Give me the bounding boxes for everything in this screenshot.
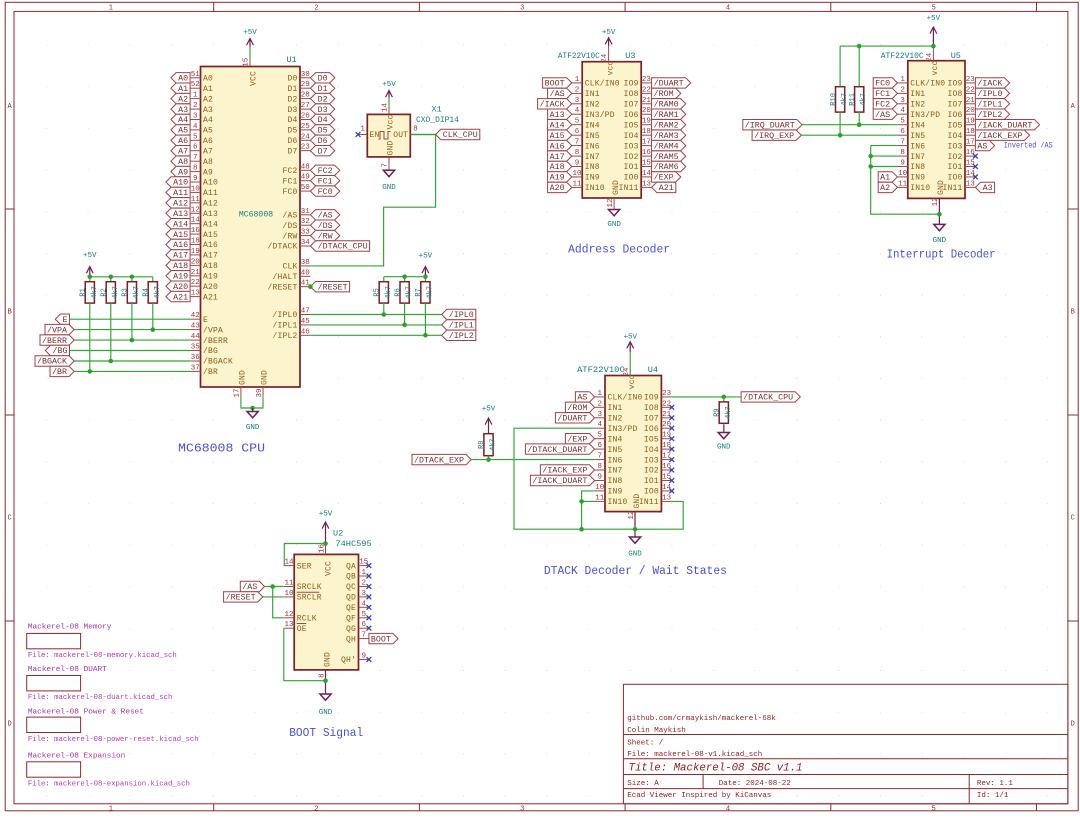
svg-text:X1: X1 (432, 105, 442, 115)
wire IN6 (871, 145, 898, 147)
no-connect IO2 (669, 468, 674, 473)
resistor R10 4k7 (830, 87, 849, 112)
svg-text:IN4: IN4 (585, 121, 600, 130)
svg-text:IO6: IO6 (947, 111, 962, 120)
net label D0 (310, 73, 334, 84)
net label /DS (310, 220, 339, 231)
svg-text:/BG: /BG (53, 347, 68, 356)
pin 24 VCC (601, 46, 609, 63)
net label CLK_CPU (436, 129, 480, 140)
svg-text:/DTACK_CPU: /DTACK_CPU (318, 243, 368, 252)
svg-text:1: 1 (575, 76, 580, 84)
svg-text:IN10: IN10 (910, 184, 930, 193)
svg-text:D2: D2 (287, 95, 297, 104)
svg-text:2: 2 (900, 86, 905, 94)
net label D7 (310, 146, 334, 157)
svg-text:11: 11 (898, 180, 908, 188)
svg-text:IN5: IN5 (585, 132, 600, 141)
ground (718, 424, 729, 439)
svg-text:45: 45 (301, 318, 311, 326)
svg-text:vcc: vcc (931, 60, 940, 75)
net label /IACK_EXP (540, 465, 594, 476)
svg-text:23: 23 (642, 76, 652, 84)
svg-text:D: D (7, 721, 11, 729)
svg-text:GND: GND (261, 370, 270, 385)
wire R6 bottom (404, 303, 406, 325)
svg-text:21: 21 (662, 411, 672, 419)
svg-text:1: 1 (109, 805, 113, 813)
svg-text:IN6: IN6 (585, 142, 600, 151)
svg-text:A6: A6 (178, 137, 188, 146)
svg-text:22: 22 (662, 400, 671, 408)
junction (130, 338, 135, 343)
svg-text:/IPL2: /IPL2 (449, 332, 474, 341)
svg-text:GND: GND (246, 424, 260, 432)
svg-text:17: 17 (642, 139, 651, 147)
svg-text:IO1: IO1 (624, 163, 639, 172)
svg-text:A7: A7 (178, 147, 188, 156)
net label D1 (310, 83, 334, 94)
no-connect IO6 (669, 426, 674, 431)
svg-text:9: 9 (361, 653, 366, 661)
net label /IACK (975, 78, 1009, 89)
svg-text:/ROM: /ROM (654, 90, 674, 99)
ground (383, 170, 394, 176)
svg-text:3: 3 (193, 113, 198, 121)
svg-text:IN6: IN6 (910, 142, 925, 151)
svg-text:A13: A13 (173, 210, 188, 219)
svg-text:D4: D4 (318, 116, 328, 125)
svg-text:FC0: FC0 (318, 188, 333, 197)
net label /DTACK_EXP (412, 454, 471, 465)
wire /BERR (74, 339, 190, 341)
wire /BGACK (74, 360, 190, 362)
svg-text:11: 11 (595, 494, 605, 502)
svg-text:A15: A15 (203, 231, 218, 240)
svg-text:FC1: FC1 (318, 177, 333, 186)
svg-text:GND: GND (607, 221, 621, 229)
svg-text:IN9: IN9 (910, 174, 925, 183)
svg-text:/RAM6: /RAM6 (654, 163, 679, 172)
svg-text:IN3/PD: IN3/PD (910, 111, 940, 120)
svg-text:1: 1 (109, 4, 113, 12)
net label BOOT (543, 78, 572, 89)
svg-text:33: 33 (301, 229, 311, 237)
svg-text:BOOT: BOOT (545, 80, 565, 89)
net label FC1 (310, 176, 339, 187)
net label /IPL2 (442, 330, 476, 341)
svg-text:D7: D7 (318, 147, 328, 156)
svg-text:IN9: IN9 (585, 174, 600, 183)
svg-text:9: 9 (575, 160, 580, 168)
svg-text:R10: R10 (830, 93, 838, 106)
svg-text:10: 10 (191, 185, 201, 193)
resistor R9 4k7 (714, 402, 733, 423)
svg-text:FC1: FC1 (875, 90, 890, 99)
svg-text:D5: D5 (287, 127, 297, 136)
svg-text:QG: QG (346, 625, 356, 634)
no-connect X1 EN (356, 132, 361, 137)
net label AS (975, 140, 994, 151)
svg-text:A7: A7 (203, 147, 213, 156)
svg-text:/AS: /AS (318, 212, 333, 221)
svg-text:BOOT: BOOT (371, 635, 391, 644)
svg-text:4k7: 4k7 (725, 406, 733, 419)
svg-text:ATF22V10C: ATF22V10C (577, 365, 625, 375)
oscillator X1 CXO_DIP14 (358, 105, 421, 170)
svg-text:42: 42 (191, 312, 200, 320)
svg-text:19: 19 (191, 248, 200, 256)
net label FC0 (873, 78, 897, 89)
net label A19 (548, 172, 572, 183)
wire R6 top (404, 277, 406, 282)
svg-text:FC0: FC0 (282, 188, 297, 197)
svg-text:15: 15 (966, 160, 976, 168)
pin 17 GND (234, 387, 242, 398)
svg-text:QD: QD (346, 594, 356, 603)
power +5V (422, 267, 429, 277)
svg-text:/BGACK: /BGACK (203, 358, 233, 367)
net label A18 (548, 161, 572, 172)
svg-text:7: 7 (382, 163, 390, 168)
wire R7 top (424, 277, 426, 282)
net label /AS (548, 88, 572, 99)
svg-text:IN10: IN10 (608, 498, 628, 507)
wire /IPL2 (310, 334, 441, 336)
svg-text:U5: U5 (951, 51, 961, 61)
junction (323, 541, 328, 546)
svg-text:SER: SER (297, 562, 312, 571)
net label /RW (310, 230, 339, 241)
svg-text:/BR: /BR (52, 368, 67, 377)
svg-text:16: 16 (642, 149, 652, 157)
svg-text:21: 21 (642, 97, 652, 105)
svg-text:22: 22 (191, 279, 200, 287)
svg-text:27: 27 (301, 102, 310, 110)
svg-text:2: 2 (598, 400, 603, 408)
svg-text:47: 47 (301, 308, 310, 316)
net label D6 (310, 135, 334, 146)
net label A4 (171, 114, 190, 125)
svg-text:CLK/IN0: CLK/IN0 (608, 394, 643, 403)
svg-text:C: C (1071, 515, 1075, 523)
svg-text:R6: R6 (394, 288, 402, 296)
wire /IPL1 (310, 324, 441, 326)
svg-text:A5: A5 (178, 127, 188, 136)
svg-text:17: 17 (234, 388, 242, 397)
wire VCC-SER (284, 544, 326, 566)
svg-text:10: 10 (572, 170, 582, 178)
svg-text:A8: A8 (178, 158, 188, 167)
net label A15 (166, 229, 190, 240)
net label A10 (166, 177, 190, 188)
no-connect IO1 (669, 478, 674, 483)
svg-text:A1: A1 (203, 85, 213, 94)
wire R2 top (110, 277, 112, 282)
svg-text:GND: GND (319, 709, 333, 717)
svg-text:+5V: +5V (602, 29, 616, 37)
junction (579, 527, 584, 532)
no-connect IO8 (669, 405, 674, 410)
no-connect QH' (367, 657, 372, 662)
svg-text:U1: U1 (287, 55, 297, 65)
net label /RAM6 (652, 161, 686, 172)
svg-text:16: 16 (191, 227, 201, 235)
svg-text:CXO_DIP14: CXO_DIP14 (416, 115, 459, 125)
svg-text:8: 8 (413, 126, 418, 134)
wire /IRQ_DUART (802, 124, 897, 126)
svg-text:/IPL0: /IPL0 (449, 311, 474, 320)
junction (868, 154, 873, 159)
svg-text:3: 3 (520, 805, 524, 813)
wire R11 top (858, 46, 860, 87)
svg-text:CLK_CPU: CLK_CPU (443, 131, 478, 140)
net label D4 (310, 114, 334, 125)
net label /RAM5 (652, 151, 686, 162)
net label A8 (171, 156, 190, 167)
net label A20 (166, 281, 190, 292)
svg-text:IO3: IO3 (947, 142, 962, 151)
svg-text:20: 20 (966, 107, 976, 115)
svg-text:A13: A13 (550, 111, 565, 120)
svg-text:39: 39 (256, 388, 264, 397)
svg-text:28: 28 (301, 92, 310, 100)
svg-text:10: 10 (595, 484, 605, 492)
net label /IPL2 (975, 109, 1009, 120)
svg-text:IN7: IN7 (910, 153, 925, 162)
svg-text:B: B (7, 309, 11, 317)
no-connect IO4 (669, 447, 674, 452)
wire R5 top (383, 277, 385, 282)
svg-text:/HALT: /HALT (272, 273, 297, 282)
svg-text:IN2: IN2 (910, 101, 925, 110)
net label /DTACK_CPU (741, 392, 800, 403)
svg-text:RCLK: RCLK (297, 615, 317, 624)
svg-text:/BERR: /BERR (42, 337, 67, 346)
svg-text:52: 52 (191, 81, 200, 89)
svg-text:8: 8 (318, 673, 326, 678)
net label /DUART (555, 413, 594, 424)
svg-text:/RAM0: /RAM0 (654, 101, 679, 110)
svg-text:4k7: 4k7 (154, 286, 162, 299)
svg-text:A21: A21 (659, 184, 674, 193)
svg-text:IN11: IN11 (619, 184, 639, 193)
junction (402, 323, 407, 328)
wire R2 bottom (110, 303, 112, 361)
svg-text:/DS: /DS (282, 222, 297, 231)
resistor R3 4k7 (122, 282, 141, 303)
svg-text:A18: A18 (203, 262, 218, 271)
svg-text:6: 6 (193, 144, 198, 152)
svg-text:+5V: +5V (319, 511, 333, 519)
svg-text:Sheet: /: Sheet: / (627, 740, 664, 748)
svg-text:17: 17 (662, 453, 671, 461)
svg-text:5: 5 (932, 805, 936, 813)
svg-text:43: 43 (191, 323, 201, 331)
svg-text:14: 14 (642, 170, 652, 178)
svg-text:2: 2 (575, 86, 580, 94)
svg-text:21: 21 (191, 269, 201, 277)
svg-text:Vcc: Vcc (386, 114, 395, 129)
svg-text:1: 1 (361, 569, 366, 577)
svg-text:A19: A19 (173, 273, 188, 282)
svg-text:B: B (1071, 309, 1075, 317)
svg-text:31: 31 (301, 208, 311, 216)
svg-text:IN5: IN5 (608, 446, 623, 455)
no-connect (367, 563, 372, 568)
svg-text:/BERR: /BERR (203, 337, 228, 346)
svg-text:A9: A9 (178, 168, 188, 177)
svg-text:15: 15 (642, 160, 652, 168)
svg-text:49: 49 (301, 174, 310, 182)
svg-text:IO3: IO3 (624, 142, 639, 151)
svg-text:IO0: IO0 (947, 174, 962, 183)
svg-text:/RESET: /RESET (318, 283, 348, 292)
svg-text:A9: A9 (203, 168, 213, 177)
svg-text:U3: U3 (625, 51, 635, 61)
svg-text:1: 1 (598, 390, 603, 398)
svg-text:FC2: FC2 (318, 167, 333, 176)
svg-text:A16: A16 (550, 142, 565, 151)
svg-text:32: 32 (301, 218, 310, 226)
wire IN6-GND (871, 146, 940, 215)
svg-text:/AS: /AS (550, 90, 565, 99)
svg-text:QE: QE (346, 604, 356, 613)
svg-text:IO4: IO4 (644, 446, 659, 455)
net label A19 (166, 271, 190, 282)
svg-text:/IACK: /IACK (540, 101, 565, 110)
svg-text:46: 46 (301, 328, 311, 336)
svg-text:CLK/IN0: CLK/IN0 (910, 80, 945, 89)
resistor R1 4k7 (80, 282, 99, 303)
svg-text:AS: AS (977, 142, 987, 151)
junction (722, 395, 727, 400)
wire X1 OUT (410, 134, 435, 136)
svg-text:A16: A16 (173, 241, 188, 250)
svg-text:IO6: IO6 (644, 425, 659, 434)
svg-text:IN6: IN6 (608, 456, 623, 465)
svg-text:A2: A2 (880, 184, 890, 193)
svg-text:R4: R4 (143, 288, 151, 296)
net label BOOT (369, 633, 398, 644)
svg-text:GND: GND (382, 184, 396, 192)
wire R10 bottom (839, 112, 841, 135)
wire R4 top (152, 277, 154, 282)
svg-text:6: 6 (900, 128, 905, 136)
power +5V (386, 91, 393, 98)
net label A21 (166, 291, 190, 302)
net label /IRQ_DUART (743, 120, 802, 131)
svg-text:GND: GND (717, 444, 731, 452)
svg-text:IN9: IN9 (608, 488, 623, 497)
junction (857, 44, 862, 49)
svg-text:4: 4 (726, 805, 730, 813)
svg-text:5: 5 (932, 4, 936, 12)
svg-text:IN11: IN11 (639, 498, 659, 507)
wire /IRQ_EXP (801, 134, 897, 136)
svg-text:D1: D1 (287, 85, 297, 94)
hierarchical sheet Mackerel-08 Expansion (27, 753, 190, 789)
junction (109, 275, 114, 280)
svg-text:ATF22V10C: ATF22V10C (558, 51, 600, 61)
net label A18 (166, 260, 190, 271)
net label A2 (878, 182, 897, 193)
svg-text:18: 18 (966, 128, 975, 136)
net label /RESET (310, 282, 349, 293)
net label /RAM4 (652, 140, 686, 151)
svg-text:A16: A16 (203, 241, 218, 250)
hierarchical sheet Mackerel-08 Power & Reset (27, 708, 199, 744)
svg-text:OE: OE (297, 625, 307, 634)
svg-text:4k7: 4k7 (133, 286, 141, 299)
no-connect IO1 (973, 164, 978, 169)
junction (423, 274, 428, 279)
svg-text:5: 5 (361, 611, 366, 619)
svg-text:/DTACK_DUART: /DTACK_DUART (527, 446, 587, 455)
svg-text:50: 50 (301, 184, 311, 192)
net label A21 (652, 182, 676, 193)
svg-text:A15: A15 (550, 132, 565, 141)
net label A20 (548, 182, 572, 193)
svg-text:R7: R7 (415, 288, 423, 296)
svg-text:SRCLK: SRCLK (297, 583, 322, 592)
svg-text:FC1: FC1 (282, 177, 297, 186)
svg-text:/RW: /RW (318, 232, 333, 241)
svg-text:QB: QB (346, 573, 356, 582)
wire /VPA (74, 329, 190, 331)
wire R3 top (131, 277, 133, 282)
svg-text:17: 17 (966, 139, 975, 147)
svg-text:4: 4 (193, 123, 198, 131)
svg-text:D0: D0 (287, 75, 297, 84)
pin 12 GND (628, 511, 636, 537)
svg-text:Date: 2024-08-22: Date: 2024-08-22 (719, 780, 791, 788)
junction (130, 275, 135, 280)
svg-text:9: 9 (193, 175, 198, 183)
svg-text:/RAM4: /RAM4 (654, 142, 679, 151)
junction (633, 527, 638, 532)
svg-text:File: mackerel-08-power-reset.: File: mackerel-08-power-reset.kicad_sch (28, 736, 199, 744)
wire /BG (70, 350, 191, 352)
svg-text:GND: GND (937, 180, 946, 195)
svg-text:D1: D1 (318, 85, 328, 94)
svg-text:/RESET: /RESET (267, 283, 297, 292)
svg-text:Mackerel-08 DUART: Mackerel-08 DUART (28, 666, 107, 674)
wire R10 top (839, 46, 841, 87)
net label D3 (310, 104, 334, 115)
net label A14 (166, 219, 190, 230)
svg-text:Size: A: Size: A (627, 780, 659, 788)
pin 24 VCC (926, 46, 934, 62)
wire CLK_CPU (310, 135, 435, 266)
svg-text:GND: GND (633, 494, 642, 509)
junction (838, 133, 843, 138)
svg-text:8: 8 (193, 165, 198, 173)
svg-text:19: 19 (662, 432, 671, 440)
svg-text:/VPA: /VPA (203, 326, 223, 335)
svg-text:4k7: 4k7 (426, 286, 434, 299)
net label A14 (548, 120, 572, 131)
wire /AS-RCLK (273, 587, 284, 618)
junction (109, 359, 114, 364)
junction (308, 284, 313, 289)
svg-text:6: 6 (598, 442, 603, 450)
svg-text:Rev: 1.1: Rev: 1.1 (977, 780, 1014, 788)
svg-text:A3: A3 (203, 106, 213, 115)
svg-text:3: 3 (575, 97, 580, 105)
svg-text:/IACK_DUART: /IACK_DUART (532, 477, 587, 486)
no-connect (367, 615, 372, 620)
